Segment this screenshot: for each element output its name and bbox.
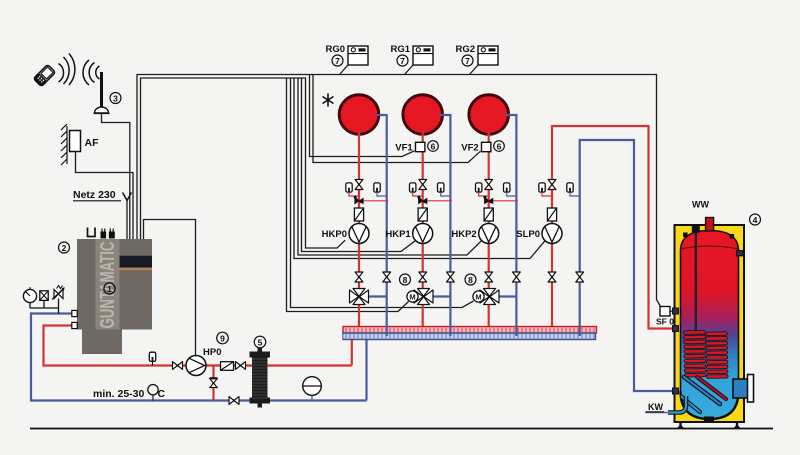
wire to pump HKP1: [302, 78, 417, 252]
remote control handset: [33, 64, 55, 86]
motorised three-way mixer valve HKP1: [414, 289, 433, 305]
red supply pipe SLP0 to storage tank: [552, 126, 674, 329]
svg-text:RG0: RG0: [325, 44, 345, 55]
svg-text:HKP1: HKP1: [385, 229, 411, 240]
svg-text:6: 6: [497, 141, 502, 151]
dome nubs: [683, 233, 734, 239]
radio waves at antenna: [83, 60, 100, 85]
storage tank insulation: [675, 225, 745, 422]
label circle 8 of mixer HKP2: [465, 274, 476, 285]
sight glass / vessel: [40, 291, 48, 308]
manifold return bar: [343, 333, 596, 340]
thermometer supply SLP0: [539, 183, 552, 196]
mixer motor M of HKP2: [473, 291, 484, 302]
flow sensor VF1: [416, 142, 425, 151]
svg-text:min. 25-30: min. 25-30: [93, 388, 145, 400]
tank legs: [681, 422, 738, 428]
tank drain stub: [704, 417, 714, 422]
radio waves from remote: [59, 54, 75, 86]
shut-off valve supply HKP0: [355, 180, 363, 190]
svg-text:HKP0: HKP0: [322, 229, 347, 240]
air vent with bypass HKP1: [417, 196, 451, 204]
svg-text:KW: KW: [648, 402, 663, 412]
blue return pipe SLP0 from storage tank: [580, 140, 674, 391]
drain bypass pipe: [212, 366, 214, 401]
label circle 1 on boiler: [104, 283, 115, 294]
shut-off valve supply HKP1: [419, 180, 427, 190]
svg-text:7: 7: [335, 56, 340, 66]
svg-text:1: 1: [107, 284, 112, 294]
air vent with bypass HKP2: [483, 196, 518, 204]
valve below pump HKP0 (supply): [355, 272, 363, 282]
sensor SF: [660, 307, 679, 317]
three-way valve HKP0: [350, 289, 369, 305]
frost symbol: [323, 94, 334, 107]
svg-text:RG1: RG1: [390, 44, 410, 55]
manifold supply bar: [343, 327, 597, 334]
mixer link to return HKP1: [432, 295, 451, 297]
pipe manifold supply to heat exchanger: [351, 330, 353, 366]
circulation connector: [737, 251, 744, 256]
heating coil: [684, 330, 729, 379]
room controller RG2: [478, 46, 498, 65]
boiler orange trim: [120, 268, 153, 271]
room controller RG0: [348, 46, 368, 65]
svg-text:2: 2: [62, 243, 67, 253]
wire to mixer motor M1: [287, 78, 409, 312]
svg-text:VF2: VF2: [461, 143, 478, 154]
pressure gauge: [23, 287, 36, 308]
svg-text:VF1: VF1: [395, 143, 413, 154]
pump HP0: [186, 356, 206, 376]
label circle 6 of VF1: [428, 141, 439, 152]
label circle 7 of RG0: [332, 55, 343, 66]
wire to flow sensor VF2: [313, 75, 481, 163]
red supply pipe HKP2: [488, 132, 490, 327]
thermometer return HKP1: [438, 183, 451, 196]
thermometer return HKP0: [374, 183, 387, 196]
svg-text:M: M: [409, 292, 415, 301]
shut-off valve before exchanger: [236, 362, 246, 370]
thermometer return HKP2: [504, 183, 517, 196]
blue return pipe HKP1: [440, 115, 451, 336]
svg-text:SF 0: SF 0: [656, 317, 674, 327]
valve return SLP0: [576, 272, 584, 282]
wire boiler to pump HP0: [144, 220, 196, 356]
wire antenna to boiler: [102, 114, 130, 239]
thermometer return SLP0: [567, 183, 580, 196]
wire RG1 to bus: [405, 65, 414, 75]
svg-text:4: 4: [753, 215, 758, 225]
coil outlet pipes: [672, 377, 726, 412]
thermometer supply HKP2: [476, 183, 489, 196]
tank flange: [733, 375, 754, 403]
boiler terminal blocks: [101, 229, 115, 239]
thermometer supply HKP1: [410, 183, 423, 196]
wall hatching: [61, 124, 67, 165]
valve below pump HKP2 (supply): [485, 272, 493, 282]
heating circuit radiator of HKP2: [469, 95, 509, 135]
air vent with bypass HKP0: [354, 196, 389, 204]
check valve HKP2: [484, 208, 493, 221]
blue return pipe HKP0: [376, 115, 387, 336]
heating circuit radiator of HKP0: [339, 95, 379, 135]
boiler brand strip: [96, 239, 120, 330]
heating circuit radiator of HKP1: [403, 95, 443, 135]
boiler supply stub: [72, 322, 77, 328]
svg-text:M: M: [475, 292, 481, 301]
label circle 9: [217, 332, 229, 344]
mixer motor M of HKP1: [407, 291, 418, 302]
wire to pump HKP2: [298, 78, 482, 255]
mains arrow: [123, 193, 132, 201]
blue pipes crossing supply bar: [386, 326, 388, 337]
red supply pipe HKP1: [422, 132, 424, 327]
wire to mixer motor M2: [291, 78, 474, 308]
safety group manifold wire: [30, 308, 59, 314]
drain valve: [210, 378, 218, 388]
vessel bottom outline: [681, 391, 739, 419]
shut-off valve supply HKP2: [485, 180, 493, 190]
red supply pipe HKP0: [358, 132, 360, 327]
vessel shoulder line: [681, 246, 739, 249]
label KW: [646, 402, 664, 412]
svg-text:7: 7: [400, 56, 405, 66]
valve below pump SLP0 (supply): [548, 272, 556, 282]
pump SLP0: [542, 224, 562, 244]
label circle 7 of RG1: [397, 55, 408, 66]
coil inlet connector: [673, 326, 679, 332]
check valve HKP1: [418, 208, 427, 221]
valve below pump HKP1 (supply): [419, 272, 427, 282]
blue return pipe HKP2: [506, 115, 517, 336]
mixer link to return HKP2: [498, 295, 517, 297]
valve return HKP2: [513, 272, 521, 282]
label circle 5: [254, 336, 266, 348]
boiler base: [82, 330, 122, 355]
svg-text:8: 8: [403, 275, 408, 285]
svg-text:C: C: [158, 388, 166, 400]
check valve after HP0: [221, 362, 234, 371]
svg-text:3: 3: [113, 93, 118, 103]
pump HKP2: [479, 224, 499, 244]
check valve SLP0: [547, 208, 556, 221]
svg-text:5: 5: [258, 337, 263, 347]
thermowell tube: [692, 226, 700, 331]
boiler control panel band: [120, 256, 153, 268]
label circle 6 of VF2: [494, 141, 505, 152]
valve return HKP0: [383, 272, 391, 282]
wire bus B: boiler to pump HKP0: [141, 78, 346, 248]
thermometer boiler supply: [149, 352, 155, 365]
motorised three-way mixer valve HKP2: [480, 289, 499, 305]
thermometer min temperature: [148, 385, 158, 401]
svg-text:AF: AF: [85, 137, 100, 149]
outdoor sensor AF: [70, 131, 81, 152]
svg-text:WW: WW: [692, 200, 709, 210]
wire mains to boiler: [126, 201, 128, 240]
shut-off valve before HP0: [173, 362, 183, 370]
plate heat exchanger: [250, 348, 271, 408]
wire RG2 to bus: [470, 65, 479, 75]
label circle 4: [750, 214, 761, 225]
pump HKP1: [413, 224, 433, 244]
storage tank vessel: [681, 231, 739, 420]
room controller RG1: [413, 46, 433, 65]
svg-text:HKP2: HKP2: [451, 229, 476, 240]
KW inlet elbow: [668, 396, 686, 413]
antenna (outdoor sensor 3): [94, 72, 110, 113]
svg-text:8: 8: [468, 275, 473, 285]
label circle 3: [110, 93, 121, 104]
svg-text:RG2: RG2: [455, 44, 475, 55]
svg-text:SLP0: SLP0: [516, 229, 540, 240]
floor line: [30, 428, 773, 430]
wire RG0 to bus: [340, 65, 349, 75]
pipe manifold return down: [365, 332, 367, 401]
svg-text:Netz 230: Netz 230: [73, 189, 116, 201]
label circle 7 of RG2: [462, 55, 473, 66]
boiler body: [77, 239, 152, 330]
label circle 2: [59, 242, 70, 253]
wire bus A: boiler to RG bus and SF sensor: [137, 75, 661, 307]
boiler return stub: [72, 310, 77, 316]
svg-text:HP0: HP0: [203, 347, 221, 358]
pump HKP0: [349, 224, 369, 244]
red boiler supply pipe: [44, 326, 352, 366]
shut-off valve supply SLP0: [548, 180, 556, 190]
shut-off valve return exchanger: [229, 397, 239, 405]
blue boiler return pipe: [31, 314, 367, 401]
check valve HKP0: [354, 208, 363, 221]
safety valve: [52, 286, 65, 309]
coil return connector: [673, 388, 679, 394]
wire to pump SLP0: [294, 78, 546, 259]
valve return HKP1: [447, 272, 455, 282]
expansion vessel: [303, 377, 322, 401]
wire to flow sensor VF1: [310, 75, 415, 157]
boiler flue connector: [88, 228, 96, 237]
svg-text:7: 7: [465, 56, 470, 66]
KW feed line: [645, 412, 668, 414]
svg-text:6: 6: [431, 141, 436, 151]
WW outlet stub: [706, 218, 714, 232]
label circle 8 of mixer HKP1: [400, 274, 411, 285]
thermometer supply HKP0: [346, 183, 359, 196]
wire AF to boiler: [76, 152, 134, 240]
flow sensor VF2: [482, 142, 491, 151]
mixer link to return HKP0: [368, 295, 387, 297]
svg-text:9: 9: [220, 333, 225, 343]
label Netz 230 V (mains): [73, 189, 121, 201]
